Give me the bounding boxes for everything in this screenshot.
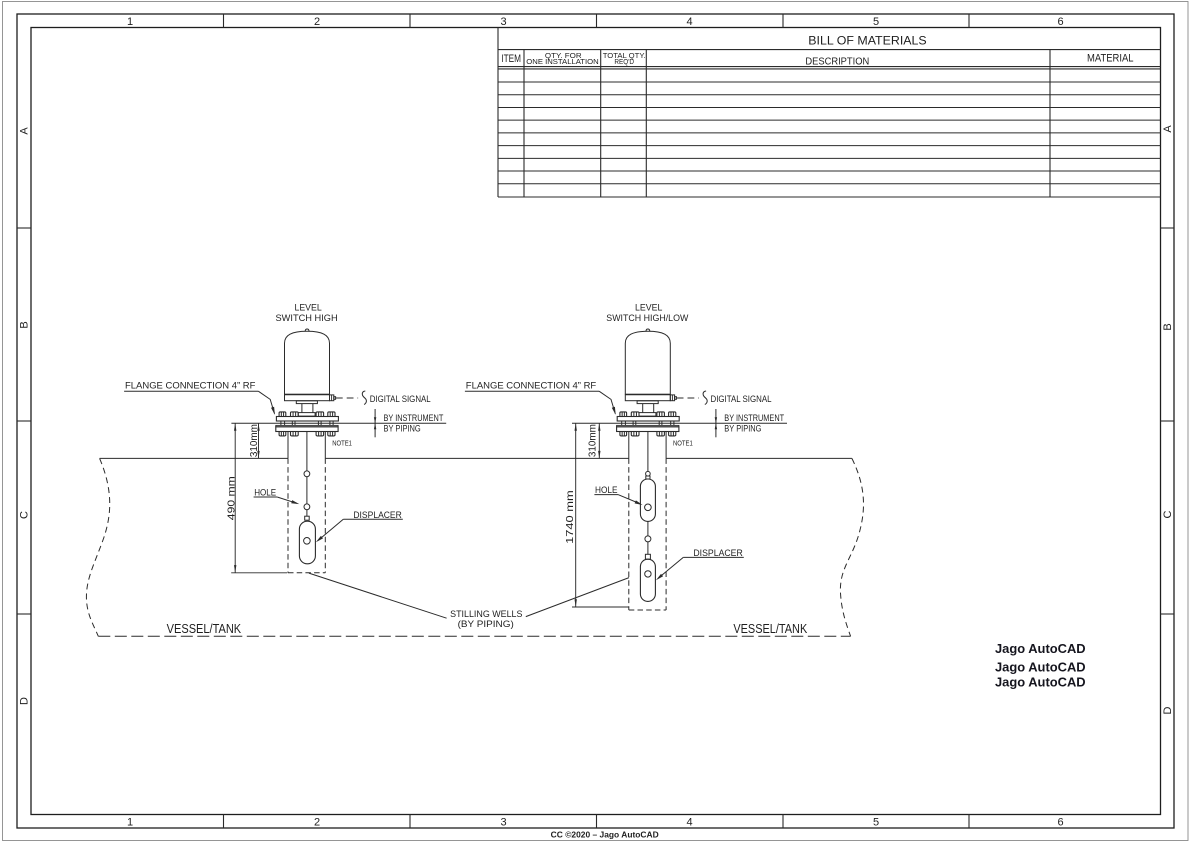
svg-text:B: B	[1162, 323, 1174, 330]
svg-text:2: 2	[314, 16, 320, 28]
svg-text:A: A	[19, 127, 31, 135]
svg-text:5: 5	[873, 816, 879, 828]
svg-text:LEVEL: LEVEL	[294, 303, 321, 313]
svg-text:A: A	[1162, 125, 1174, 133]
svg-text:B: B	[19, 321, 31, 328]
svg-text:DIGITAL SIGNAL: DIGITAL SIGNAL	[711, 394, 772, 404]
svg-text:BY PIPING: BY PIPING	[724, 423, 761, 433]
svg-text:NOTE1: NOTE1	[673, 439, 693, 448]
svg-text:6: 6	[1057, 816, 1063, 828]
svg-text:VESSEL/TANK: VESSEL/TANK	[733, 622, 807, 636]
svg-text:SWITCH HIGH: SWITCH HIGH	[276, 313, 338, 323]
svg-text:SWITCH HIGH/LOW: SWITCH HIGH/LOW	[606, 313, 688, 323]
svg-text:3: 3	[500, 816, 506, 828]
svg-text:VESSEL/TANK: VESSEL/TANK	[167, 622, 242, 636]
svg-text:NOTE1: NOTE1	[332, 439, 352, 448]
svg-text:FLANGE CONNECTION 4” RF: FLANGE CONNECTION 4” RF	[466, 381, 597, 391]
svg-text:5: 5	[873, 16, 879, 28]
svg-text:ONE INSTALLATION: ONE INSTALLATION	[526, 57, 598, 66]
svg-text:C: C	[1162, 510, 1174, 518]
svg-text:2: 2	[314, 816, 320, 828]
svg-text:STILLING WELLS: STILLING WELLS	[450, 609, 522, 620]
svg-text:4: 4	[686, 16, 692, 28]
svg-text:DIGITAL SIGNAL: DIGITAL SIGNAL	[370, 394, 431, 404]
svg-text:CC ©2020 – Jago AutoCAD: CC ©2020 – Jago AutoCAD	[551, 830, 659, 839]
svg-text:490 mm: 490 mm	[226, 476, 237, 520]
svg-text:FLANGE CONNECTION 4” RF: FLANGE CONNECTION 4” RF	[125, 381, 256, 391]
svg-text:MATERIAL: MATERIAL	[1087, 52, 1134, 64]
svg-text:D: D	[19, 697, 31, 705]
svg-text:(BY PIPING): (BY PIPING)	[458, 619, 514, 630]
svg-text:ITEM: ITEM	[501, 53, 521, 65]
svg-text:DESCRIPTION: DESCRIPTION	[805, 56, 869, 67]
svg-text:BILL OF MATERIALS: BILL OF MATERIALS	[808, 34, 926, 48]
svg-text:BY INSTRUMENT: BY INSTRUMENT	[384, 413, 444, 423]
svg-text:1740 mm: 1740 mm	[565, 490, 576, 544]
svg-text:4: 4	[686, 816, 692, 828]
svg-text:BY INSTRUMENT: BY INSTRUMENT	[724, 413, 784, 423]
svg-text:C: C	[19, 511, 31, 519]
svg-text:D: D	[1162, 706, 1174, 714]
svg-text:1: 1	[127, 16, 133, 28]
svg-text:310mm: 310mm	[249, 424, 260, 457]
svg-text:310mm: 310mm	[588, 424, 599, 457]
svg-text:BY PIPING: BY PIPING	[384, 423, 421, 433]
svg-text:Jago AutoCAD: Jago AutoCAD	[995, 674, 1086, 689]
svg-text:6: 6	[1057, 16, 1063, 28]
svg-text:3: 3	[500, 16, 506, 28]
svg-text:LEVEL: LEVEL	[635, 303, 662, 313]
svg-text:REQ'D: REQ'D	[614, 57, 634, 66]
svg-text:Jago AutoCAD: Jago AutoCAD	[995, 641, 1086, 656]
svg-text:1: 1	[127, 816, 133, 828]
svg-text:Jago AutoCAD: Jago AutoCAD	[995, 659, 1086, 674]
